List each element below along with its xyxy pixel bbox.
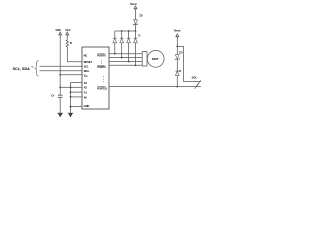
IC right pin labels with overlines	[97, 53, 107, 90]
capacitor CF	[58, 95, 63, 97]
label D flyback diodes	[139, 33, 141, 37]
svg-text:CF: CF	[51, 93, 55, 97]
node junction out3	[128, 61, 130, 63]
power Vmot label right	[174, 29, 181, 33]
node junction rail d2	[121, 30, 123, 32]
wire A3	[71, 82, 83, 84]
wire output 2	[109, 57, 147, 59]
svg-text:NC: NC	[84, 53, 88, 57]
motor MOT	[147, 50, 164, 67]
svg-text:SCL: SCL	[84, 64, 89, 68]
wire SCL bus	[40, 65, 82, 67]
wire zener to rail	[135, 25, 137, 31]
wire dash before brace	[31, 66, 33, 68]
overline PORT0	[97, 53, 105, 55]
node junction VDD-A spur	[59, 86, 61, 88]
zener ZD right	[175, 55, 180, 60]
diode D3	[127, 31, 131, 62]
break slash lower	[195, 83, 199, 89]
overline PORT3	[97, 64, 105, 66]
svg-text:ZD: ZD	[179, 50, 183, 54]
ground under CF	[57, 113, 63, 117]
wire Vmot to zener	[135, 9, 137, 20]
power Vmot arrow right	[176, 34, 179, 37]
svg-text:Vmot: Vmot	[130, 2, 137, 6]
node junction A2	[70, 86, 72, 88]
node junction out4	[135, 64, 137, 66]
wire PORT0 output	[109, 53, 147, 55]
wire SDA bus	[40, 70, 82, 72]
power Vmot label top	[130, 2, 137, 6]
label SOL	[192, 75, 198, 79]
svg-text:MOT: MOT	[152, 57, 159, 61]
wire output 3	[109, 61, 147, 63]
power VCC label	[65, 28, 70, 32]
wire A2	[71, 86, 83, 88]
ellipsis dots right ports upper	[100, 60, 103, 64]
svg-text:VCC: VCC	[65, 28, 70, 32]
node junction rail d3	[128, 30, 130, 32]
wire PORT15 to solenoid	[109, 86, 201, 88]
diode D2	[120, 31, 124, 58]
svg-text:D: D	[179, 69, 181, 73]
break slash upper	[197, 80, 201, 86]
ellipsis dots right ports lower	[102, 76, 105, 82]
wire GND pin	[71, 106, 83, 108]
power VDD arrow	[59, 32, 62, 35]
wire Vmot right down	[176, 37, 178, 55]
wire A1	[71, 91, 83, 93]
A-bus vertical	[70, 83, 72, 114]
wire branch to solenoid feed	[177, 46, 201, 81]
svg-text:SCL, SDA: SCL, SDA	[13, 67, 31, 71]
wire spur to A-bus	[60, 86, 70, 88]
wire VDD to IC	[60, 74, 82, 76]
node junction VDD pin	[59, 74, 61, 76]
power VCC arrow	[66, 32, 69, 35]
IC left pin labels	[84, 53, 93, 108]
node junction clamp-PORT15	[176, 86, 178, 88]
wire VCC to resistor	[66, 35, 68, 40]
motor terminal block	[142, 52, 147, 67]
node junction Vmot branch	[176, 46, 178, 48]
node SCL,SDA bus label	[13, 67, 31, 71]
svg-text:RESET: RESET	[84, 60, 93, 64]
IC U1 box	[82, 47, 109, 109]
resistor R	[66, 40, 68, 47]
svg-text:ZD: ZD	[139, 13, 143, 17]
svg-text:R: R	[70, 41, 72, 45]
overline PORT15	[97, 86, 106, 88]
wire A0	[71, 96, 83, 98]
svg-text:SOL: SOL	[192, 75, 198, 79]
wire VDD vertical	[59, 35, 61, 95]
power Vmot arrow top	[134, 6, 137, 9]
diode D4	[134, 31, 138, 65]
wire resistor to RESET pin	[67, 47, 82, 62]
svg-text:D: D	[139, 33, 141, 37]
brace grouping SCL,SDA	[35, 61, 39, 77]
wire cap to ground	[59, 97, 61, 113]
diode D1	[113, 31, 117, 54]
node junction out2	[121, 57, 123, 59]
svg-text:GND: GND	[84, 104, 90, 108]
wire diode to PORT15 line	[176, 76, 178, 87]
node junction A0	[70, 96, 72, 98]
zener ZD top	[133, 20, 138, 25]
svg-text:SDA: SDA	[84, 69, 89, 73]
node junction rail	[135, 30, 137, 32]
wire diode rail	[115, 30, 136, 32]
node junction out1	[114, 53, 116, 55]
power VDD label	[55, 28, 60, 32]
svg-text:VDD: VDD	[55, 28, 60, 32]
svg-text:Vmot: Vmot	[174, 29, 181, 33]
ground under A-bus	[68, 113, 74, 117]
diode D right	[175, 71, 179, 76]
wire zener to diode	[176, 59, 178, 71]
wire PORT3 output	[109, 64, 147, 66]
node junction A1	[70, 91, 72, 93]
node junction GND	[70, 106, 72, 108]
